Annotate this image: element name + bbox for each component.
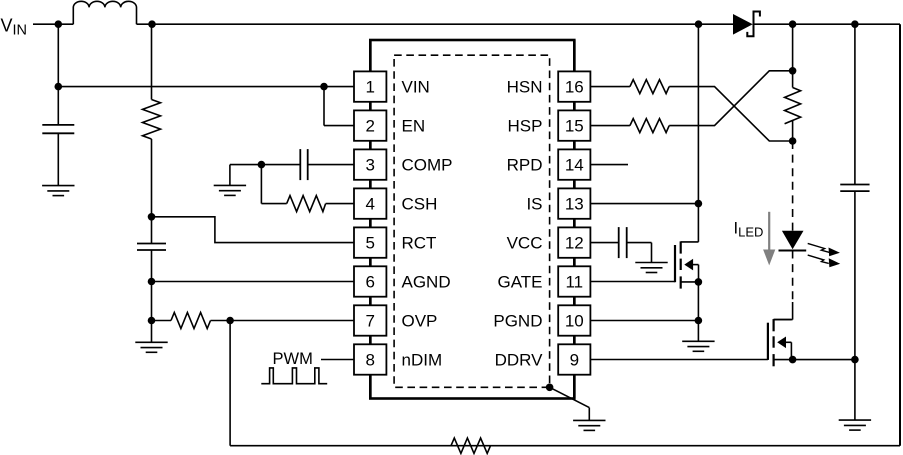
wire pin 3 COMP to cap	[308, 164, 354, 166]
wire pin 10 PGND	[590, 320, 698, 322]
wire LED string lower (dashed)	[792, 251, 794, 303]
pin 12 box (VCC)	[558, 227, 590, 257]
svg-text:AGND: AGND	[402, 273, 451, 292]
node VOUT at output cap	[851, 20, 859, 28]
node RCT tap	[148, 213, 156, 221]
ground COMP	[214, 185, 246, 195]
node Q1 source	[695, 278, 703, 286]
svg-text:RPD: RPD	[507, 156, 543, 175]
wire OVP res left lead	[152, 320, 172, 322]
wire return to ground	[854, 360, 856, 421]
node EN tap	[320, 83, 328, 91]
pin 15 box (HSP)	[558, 110, 590, 140]
svg-text:12: 12	[565, 234, 584, 253]
resistor divider top	[143, 100, 161, 140]
wire to pin 2 EN	[324, 125, 354, 127]
svg-text:13: 13	[565, 195, 584, 214]
wire pin 13 IS	[590, 203, 698, 205]
node SW at FET drain	[695, 20, 703, 28]
wire pin 12 VCC	[590, 242, 619, 244]
ground thermal pad	[573, 420, 605, 430]
resistor OVP lower	[171, 313, 211, 329]
wire PWM to pin 8	[321, 359, 354, 361]
wire pin 11 GATE	[590, 281, 675, 283]
svg-text:GATE: GATE	[497, 273, 542, 292]
wire divider mid	[151, 139, 153, 244]
wire AGND to pin 6	[152, 281, 355, 283]
node VIN junction	[55, 20, 63, 28]
svg-text:3: 3	[365, 156, 374, 175]
wire bottom feedback rail left part	[230, 445, 451, 447]
node COMP/CSH	[258, 161, 266, 169]
wire CIN to ground	[57, 133, 59, 185]
wire to comp ground	[229, 165, 231, 186]
svg-text:PWM: PWM	[273, 350, 313, 368]
IC U1 body outline	[370, 40, 574, 399]
wire VCC cap right lead	[627, 242, 652, 244]
wire bottom feedback rail right part	[451, 445, 900, 447]
svg-text:8: 8	[365, 351, 374, 370]
node Q2 source	[789, 356, 797, 364]
resistor HSN filter	[630, 80, 669, 94]
node IS at switch	[695, 200, 703, 208]
svg-text:11: 11	[565, 273, 583, 292]
wire switch node rail	[137, 23, 734, 25]
wire VCC cap to ground	[651, 243, 653, 263]
wire LED string upper (dashed)	[792, 141, 794, 231]
svg-text:PGND: PGND	[493, 312, 542, 331]
pin 11 box (GATE)	[558, 266, 590, 296]
capacitor VCC bypass	[619, 227, 627, 258]
wire Q1 source to ground	[697, 282, 699, 341]
pin 8 box (nDIM)	[354, 344, 386, 374]
node OVP divider low	[148, 317, 156, 325]
svg-text:5: 5	[365, 234, 374, 253]
wire VIN rail to pin 1	[58, 86, 354, 88]
svg-text:COMP: COMP	[402, 156, 453, 175]
ground output return	[839, 420, 871, 430]
wire VIN drop	[57, 24, 59, 125]
wire CSH res left lead	[261, 203, 286, 205]
transistor Q1 switching NFET	[675, 241, 681, 288]
svg-text:14: 14	[565, 156, 584, 175]
capacitor output COUT	[840, 185, 869, 192]
svg-text:DDRV: DDRV	[495, 351, 544, 370]
wire LED string to Q2 drain	[792, 302, 794, 320]
svg-text:HSP: HSP	[508, 117, 543, 136]
schottky diode D1	[733, 14, 753, 35]
svg-text:6: 6	[365, 273, 374, 292]
svg-text:10: 10	[565, 312, 584, 331]
node SW at inductor	[148, 20, 156, 28]
wire COMP cap to ground node	[230, 164, 300, 166]
node VOUT at LED string	[789, 20, 797, 28]
wire pin 9 DDRV to Q2 gate	[590, 359, 768, 361]
pin 6 box (AGND)	[354, 266, 386, 296]
pin 7 box (OVP)	[354, 305, 386, 335]
wire HSP to sense high	[669, 71, 792, 126]
IC thermal pad (dashed)	[394, 55, 549, 387]
pin 9 box (DDRV)	[558, 344, 590, 374]
wire Q2 source to return	[793, 359, 855, 361]
node OVP feedback	[226, 317, 234, 325]
wire CSH to pin 4	[326, 203, 354, 205]
svg-text:7: 7	[365, 312, 374, 331]
pin 2 box (EN)	[354, 110, 386, 140]
pin 16 box (HSN)	[558, 71, 590, 101]
node VIN rail left	[55, 83, 63, 91]
IC edge segments between pin boxes	[370, 40, 574, 399]
capacitor COMP	[300, 149, 307, 180]
wire pad to ground	[588, 408, 590, 421]
svg-text:nDIM: nDIM	[402, 351, 443, 370]
wire VOUT to output cap	[854, 24, 856, 184]
svg-text:CSH: CSH	[402, 195, 438, 214]
node AGND tap	[148, 278, 156, 286]
svg-text:16: 16	[565, 78, 584, 97]
capacitor timing	[137, 244, 166, 251]
node PGND	[695, 317, 703, 325]
svg-text:RCT: RCT	[402, 234, 437, 253]
pin 3 box (COMP)	[354, 149, 386, 179]
resistor CSH	[287, 196, 326, 212]
wire VIN to inductor	[33, 23, 73, 25]
node output return	[851, 356, 859, 364]
wire pin 16 HSN lead	[590, 86, 630, 88]
wire VOUT to sense resistor	[792, 24, 794, 87]
wire cap to ground chain	[151, 250, 153, 342]
wire sense resistor bottom lead	[792, 120, 794, 141]
LED emission arrows	[808, 243, 839, 266]
wire output cap bottom lead	[854, 191, 856, 360]
svg-text:15: 15	[565, 117, 584, 136]
wire CSH drop	[260, 165, 262, 204]
svg-text:VIN: VIN	[402, 78, 430, 97]
pin 13 box (IS)	[558, 188, 590, 218]
wire output right edge down	[899, 24, 901, 446]
pin 1 box (VIN)	[354, 71, 386, 101]
ground power	[682, 341, 714, 351]
svg-text:2: 2	[365, 117, 374, 136]
PWM pulse waveform	[261, 368, 327, 384]
transistor Q2 dimming NFET	[768, 319, 774, 366]
resistor current sense RSNS	[785, 88, 801, 124]
wire RCT to pin 5	[152, 217, 355, 243]
node sense high	[789, 67, 797, 75]
svg-text:4: 4	[365, 195, 374, 214]
wire EN drop	[323, 87, 325, 126]
svg-text:1: 1	[365, 78, 374, 97]
node LED+	[789, 137, 797, 145]
wire OVP feedback drop	[229, 321, 231, 446]
wire pin 15 HSP lead	[590, 125, 630, 127]
svg-text:EN: EN	[402, 117, 426, 136]
wire HSN to sense low	[669, 87, 792, 141]
capacitor input CIN	[42, 125, 74, 133]
ILED arrow (gray)	[768, 212, 770, 251]
LED D2	[782, 231, 804, 250]
wire pin 14 RPD stub	[590, 164, 628, 166]
wire OVP to pin 7	[211, 320, 355, 322]
ground input	[42, 186, 74, 196]
svg-text:9: 9	[570, 351, 579, 370]
node thermal pad	[546, 384, 554, 392]
wire pad diagonal	[550, 387, 590, 407]
svg-text:OVP: OVP	[402, 312, 438, 331]
wire diode cathode to output rail	[754, 23, 901, 25]
ground divider	[135, 342, 167, 352]
pin 10 box (PGND)	[558, 305, 590, 335]
wire SW to divider resistor	[151, 24, 153, 99]
pin 5 box (RCT)	[354, 227, 386, 257]
ground VCC	[635, 263, 667, 273]
resistor HSP filter	[630, 119, 669, 133]
pin 14 box (RPD)	[558, 149, 590, 179]
pin 4 box (CSH)	[354, 188, 386, 218]
svg-text:HSN: HSN	[507, 78, 543, 97]
wire LED cathode bar	[779, 250, 807, 252]
inductor L1	[73, 1, 136, 24]
svg-text:IS: IS	[526, 195, 542, 214]
resistor feedback bottom	[451, 438, 491, 453]
wire switch node vertical	[697, 24, 699, 242]
svg-text:VCC: VCC	[507, 234, 543, 253]
